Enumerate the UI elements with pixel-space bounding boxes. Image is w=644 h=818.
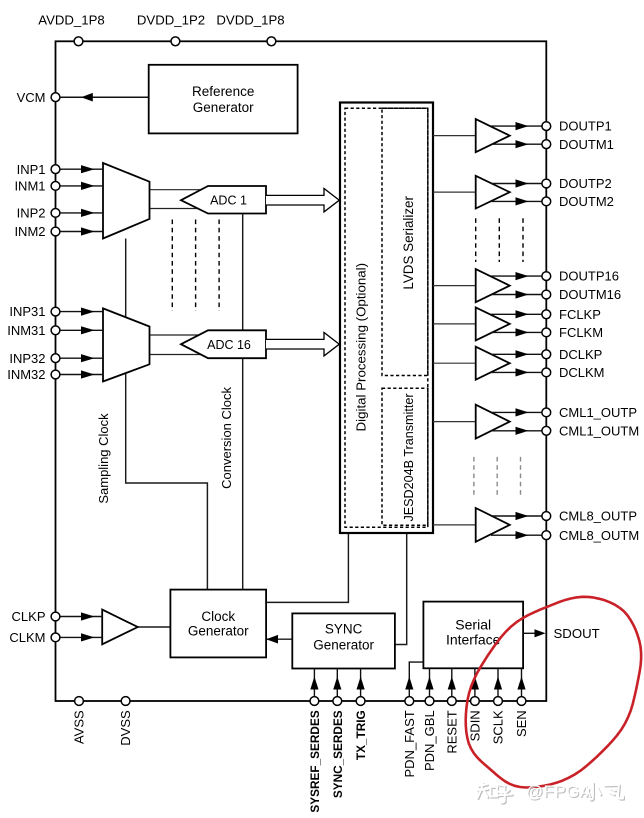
svg-text:ADC 16: ADC 16	[207, 338, 251, 352]
svg-text:LVDS Serializer: LVDS Serializer	[401, 196, 416, 290]
svg-text:DOUTP16: DOUTP16	[559, 269, 619, 284]
svg-text:FCLKM: FCLKM	[559, 325, 603, 340]
svg-text:DVSS: DVSS	[118, 710, 133, 746]
svg-text:AVDD_1P8: AVDD_1P8	[38, 13, 104, 28]
svg-text:DOUTM16: DOUTM16	[559, 287, 621, 302]
svg-text:TX_TRIG: TX_TRIG	[354, 710, 368, 760]
svg-text:INP1: INP1	[17, 162, 46, 177]
svg-text:Serial: Serial	[455, 617, 491, 633]
svg-text:DCLKM: DCLKM	[559, 365, 605, 380]
svg-text:PDN_GBL: PDN_GBL	[422, 710, 437, 771]
svg-text:DVDD_1P8: DVDD_1P8	[216, 13, 284, 28]
svg-text:Clock: Clock	[201, 609, 235, 624]
svg-text:PDN_FAST: PDN_FAST	[402, 710, 417, 777]
svg-text:FCLKP: FCLKP	[559, 307, 601, 322]
svg-text:Interface: Interface	[446, 632, 501, 648]
svg-text:SCLK: SCLK	[491, 710, 506, 744]
svg-text:VCM: VCM	[17, 90, 46, 105]
svg-text:DOUTP1: DOUTP1	[559, 119, 612, 134]
svg-text:DCLKP: DCLKP	[559, 347, 602, 362]
svg-text:Sampling Clock: Sampling Clock	[96, 413, 111, 504]
svg-text:Conversion Clock: Conversion Clock	[219, 386, 234, 488]
svg-text:INM32: INM32	[7, 367, 45, 382]
svg-text:CLKM: CLKM	[9, 630, 45, 645]
svg-text:AVSS: AVSS	[72, 710, 87, 744]
svg-text:Generator: Generator	[193, 100, 254, 115]
svg-text:CML8_OUTP: CML8_OUTP	[559, 509, 637, 524]
svg-text:SDIN: SDIN	[468, 710, 483, 741]
svg-text:SEN: SEN	[514, 710, 529, 737]
svg-text:CML1_OUTP: CML1_OUTP	[559, 405, 637, 420]
svg-text:INM31: INM31	[7, 323, 45, 338]
svg-text:CML1_OUTM: CML1_OUTM	[559, 423, 639, 438]
svg-text:INM1: INM1	[14, 179, 45, 194]
svg-text:Generator: Generator	[313, 637, 374, 652]
svg-text:CLKP: CLKP	[12, 609, 46, 624]
svg-text:SYNC_SERDES: SYNC_SERDES	[331, 710, 345, 798]
svg-text:SDOUT: SDOUT	[554, 626, 600, 641]
svg-text:ADC 1: ADC 1	[210, 193, 247, 207]
svg-text:INP32: INP32	[9, 351, 45, 366]
svg-text:@FPGA: @FPGA	[526, 782, 592, 801]
svg-text:SYNC: SYNC	[325, 622, 363, 637]
svg-text:INM2: INM2	[14, 224, 45, 239]
svg-text:CML8_OUTM: CML8_OUTM	[559, 528, 639, 543]
svg-text:Generator: Generator	[188, 623, 249, 638]
svg-text:DOUTM1: DOUTM1	[559, 137, 614, 152]
svg-text:DOUTP2: DOUTP2	[559, 176, 612, 191]
svg-text:INP31: INP31	[9, 304, 45, 319]
svg-text:Reference: Reference	[192, 84, 254, 99]
svg-text:RESET: RESET	[444, 710, 459, 753]
svg-text:DVDD_1P2: DVDD_1P2	[137, 13, 205, 28]
svg-text:INP2: INP2	[17, 206, 46, 221]
svg-text:Digital Processing (Optional): Digital Processing (Optional)	[354, 263, 369, 432]
svg-text:DOUTM2: DOUTM2	[559, 194, 614, 209]
svg-text:JESD204B Transmitter: JESD204B Transmitter	[402, 393, 416, 521]
svg-text:SYSREF_SERDES: SYSREF_SERDES	[308, 710, 322, 812]
